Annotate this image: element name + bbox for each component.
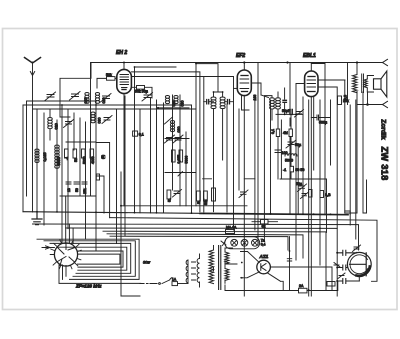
svg-text:020: 020 bbox=[102, 98, 106, 104]
svg-text:A,B: A,B bbox=[325, 193, 331, 197]
trimmer 50u T2 bbox=[295, 110, 304, 118]
mains switch bbox=[140, 278, 173, 285]
svg-text:4000: 4000 bbox=[91, 156, 95, 164]
wire right vertical B plus bbox=[347, 63, 349, 105]
cluster mid bottom r51 bbox=[167, 179, 255, 205]
wire top bus y62.5 bbox=[91, 62, 383, 64]
resistor 5M a bbox=[271, 129, 280, 137]
coil 5000 left bbox=[55, 145, 61, 168]
wire bottom long bbox=[121, 295, 140, 297]
tube AZ1 bbox=[241, 252, 333, 291]
svg-text:50: 50 bbox=[75, 188, 79, 192]
coil 030 bbox=[91, 112, 102, 124]
cluster resistors left-mid bbox=[65, 142, 97, 164]
svg-text:020: 020 bbox=[172, 101, 176, 107]
coil 015 bbox=[84, 93, 89, 104]
wire T2 node bbox=[251, 83, 303, 114]
cap 0.1 mid bbox=[133, 131, 144, 137]
svg-text:-1: -1 bbox=[283, 168, 286, 172]
ground bbox=[32, 212, 42, 225]
cluster caps left-bottom bbox=[60, 182, 96, 196]
svg-text:0,025: 0,025 bbox=[43, 153, 47, 162]
resistors 0.055 5000 mid bbox=[172, 150, 189, 164]
svg-text:020: 020 bbox=[55, 123, 59, 129]
trimmer pair mid bbox=[165, 135, 184, 143]
tube EBL1 bbox=[296, 64, 345, 297]
trimmer caps top-left row bbox=[45, 92, 153, 103]
wire avc y179 bbox=[280, 179, 327, 232]
IF transformer T1 coil b bbox=[220, 92, 225, 160]
svg-text:3,5: 3,5 bbox=[344, 95, 348, 100]
wire bus drop left bbox=[60, 63, 91, 118]
svg-text:51: 51 bbox=[197, 200, 201, 204]
svg-text:0,4: 0,4 bbox=[261, 243, 266, 247]
ground bus bbox=[23, 212, 348, 215]
svg-text:EBL1: EBL1 bbox=[303, 53, 316, 59]
svg-text:ZW 318: ZW 318 bbox=[380, 147, 390, 181]
speaker bbox=[374, 71, 387, 97]
wire psu heater col bbox=[241, 237, 292, 291]
tuning gang bbox=[42, 240, 81, 269]
svg-text:2A: 2A bbox=[299, 284, 304, 288]
svg-text:50: 50 bbox=[74, 158, 78, 162]
staircase nest w1 bbox=[37, 239, 139, 279]
svg-text:100: 100 bbox=[282, 151, 288, 155]
svg-text:0,1: 0,1 bbox=[139, 133, 144, 137]
svg-text:AZ1: AZ1 bbox=[259, 254, 269, 259]
IF transformer T2 coil a bbox=[264, 96, 274, 240]
dial lamps box bbox=[221, 237, 266, 249]
svg-text:0,1: 0,1 bbox=[271, 129, 275, 134]
power transformer bbox=[197, 246, 237, 290]
svg-text:020: 020 bbox=[177, 127, 181, 133]
tube EF2 label bbox=[236, 53, 245, 59]
svg-text:4M: 4M bbox=[283, 131, 288, 135]
wire speaker bottom bbox=[357, 92, 388, 108]
trimmer 50u bbox=[286, 140, 301, 148]
svg-text:51k: 51k bbox=[204, 199, 208, 205]
gang bottom drops bbox=[59, 196, 141, 283]
fuse HT bbox=[225, 281, 338, 293]
svg-text:5000: 5000 bbox=[57, 157, 61, 165]
tube EBL1 label bbox=[303, 53, 316, 59]
coil 0,025 far-left bbox=[35, 149, 47, 162]
junction dots top bus bbox=[123, 61, 358, 64]
tube ECH2 label bbox=[116, 50, 127, 56]
wire vert col mid-right bbox=[204, 77, 249, 231]
wire left verticals bbox=[23, 63, 96, 251]
cap 50 50 bbox=[283, 166, 304, 172]
svg-text:030: 030 bbox=[181, 101, 185, 107]
wire col x109 bbox=[96, 143, 121, 218]
staircase nest w4 bbox=[58, 247, 127, 270]
svg-text:5000: 5000 bbox=[185, 156, 189, 164]
svg-text:50k: 50k bbox=[106, 73, 112, 77]
cap 500 ebl1 bbox=[311, 115, 330, 125]
coil 5000 horizontal bbox=[285, 154, 297, 163]
IF transformer T1 coil a bbox=[211, 92, 216, 212]
output transformer bbox=[353, 63, 374, 93]
staircase nest w3 bbox=[50, 243, 131, 273]
svg-text:30w: 30w bbox=[143, 261, 150, 265]
wire right verticals bbox=[290, 64, 367, 297]
svg-text:-4: -4 bbox=[65, 157, 69, 160]
resistor 50k 50u bbox=[131, 86, 152, 99]
resistor HT line bbox=[327, 282, 335, 287]
resistor 25k right bbox=[338, 96, 349, 105]
cap 100pf bbox=[275, 150, 288, 155]
cap 50uF ebl1 bbox=[282, 109, 292, 114]
svg-text:EF2: EF2 bbox=[236, 53, 245, 59]
svg-text:136: 136 bbox=[253, 95, 257, 101]
antenna bbox=[25, 58, 41, 213]
staircase nest w2 bbox=[44, 241, 135, 276]
svg-text:50µ: 50µ bbox=[296, 182, 302, 186]
switch MA-6A bbox=[226, 226, 238, 234]
cap T1b bbox=[225, 100, 234, 104]
voltage selector taps bbox=[186, 260, 195, 284]
trimmer row2 bbox=[64, 116, 113, 128]
coil 020 left bbox=[48, 109, 59, 140]
staircase nest w6 bbox=[78, 254, 120, 264]
svg-text:ZF=128 kHz: ZF=128 kHz bbox=[75, 284, 102, 289]
svg-text:Zcrdik: Zcrdik bbox=[380, 119, 387, 140]
cap T2 bbox=[283, 100, 286, 102]
label ZF bbox=[75, 284, 102, 289]
svg-text:50k 50µ: 50k 50µ bbox=[135, 89, 148, 93]
svg-text:(8): (8) bbox=[101, 155, 105, 159]
label 3ohm bbox=[344, 95, 348, 100]
wire mid verticals bbox=[117, 67, 192, 296]
wire h-bus y109 bbox=[33, 108, 196, 110]
wire mid h y172.5 bbox=[165, 172, 196, 179]
fuse mains bbox=[172, 278, 188, 286]
cluster right bottom bbox=[296, 182, 331, 199]
svg-text:25k: 25k bbox=[83, 188, 87, 194]
IF transformer T2 coil b bbox=[276, 92, 281, 114]
staircase nest w5 bbox=[78, 251, 123, 267]
wire vert between tubes bbox=[143, 95, 291, 265]
svg-text:51: 51 bbox=[168, 198, 172, 202]
coil 020 mid bbox=[165, 117, 190, 139]
svg-text:5000: 5000 bbox=[285, 159, 293, 163]
junction dots bundle bbox=[36, 66, 338, 291]
svg-text:015: 015 bbox=[84, 98, 88, 104]
svg-text:13: 13 bbox=[67, 188, 71, 192]
svg-text:MA-6A: MA-6A bbox=[226, 226, 237, 230]
caps at magic eye bbox=[334, 245, 361, 284]
brand text bbox=[380, 119, 390, 180]
svg-text:030: 030 bbox=[98, 118, 102, 124]
svg-text:5000: 5000 bbox=[83, 156, 87, 164]
wire h y206 bbox=[121, 205, 247, 207]
resistor 62 psu bbox=[252, 220, 278, 229]
wire bus2 y67 bbox=[135, 64, 259, 101]
tube AZ1 label bbox=[259, 254, 269, 259]
wire top bus arrow bbox=[383, 59, 388, 65]
wire h-bus y105 bbox=[23, 104, 192, 106]
resistor 5M b bbox=[283, 129, 292, 137]
svg-text:62: 62 bbox=[262, 225, 266, 229]
wire y74 bbox=[132, 64, 234, 212]
coil 020c bbox=[95, 93, 106, 104]
cap T1a bbox=[204, 100, 214, 104]
coil pair mid top bbox=[158, 96, 189, 108]
staircase bundle upper bbox=[33, 211, 378, 291]
tube ECH2 bbox=[117, 63, 132, 206]
svg-text:1A: 1A bbox=[172, 278, 177, 282]
magic eye bbox=[347, 252, 371, 276]
tube EF2 bbox=[234, 63, 252, 297]
resistor 50k grid stopper bbox=[97, 73, 117, 88]
svg-text:EH 2: EH 2 bbox=[116, 50, 127, 56]
